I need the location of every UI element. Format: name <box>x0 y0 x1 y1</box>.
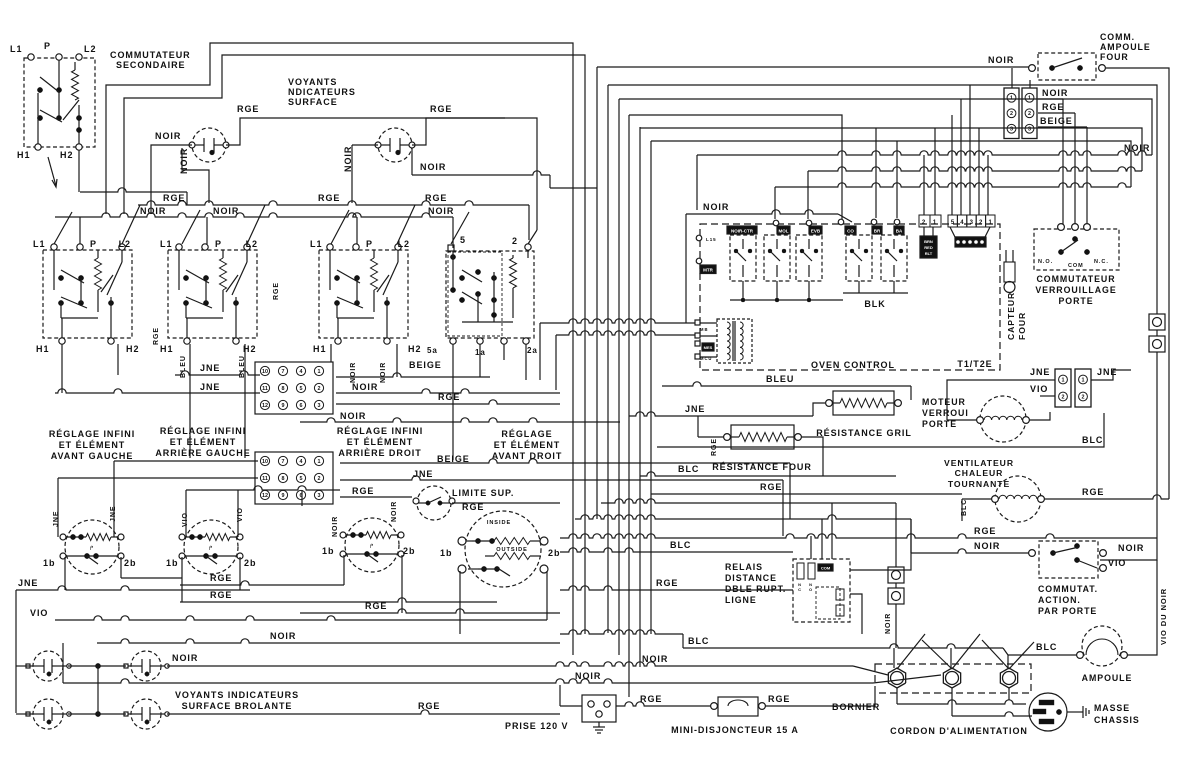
wire oven feed g <box>969 85 971 215</box>
terminal block BORNIER box <box>875 664 1031 693</box>
label relais distance <box>725 562 786 605</box>
svg-text:NOIR: NOIR <box>885 613 892 634</box>
svg-text:BLK: BLK <box>864 299 885 309</box>
wire noir bus 643 <box>97 639 560 643</box>
wire bundle v5 <box>639 127 641 667</box>
label JNE cn1 b <box>200 382 220 392</box>
svg-text:L1: L1 <box>310 239 322 249</box>
svg-text:P: P <box>215 239 222 249</box>
wire cn2 beige <box>340 459 790 519</box>
svg-text:9: 9 <box>282 403 285 409</box>
label VIO cn4 <box>1030 384 1048 394</box>
svg-text:DISTANCE: DISTANCE <box>725 573 777 583</box>
label RGE cn2 <box>352 486 374 496</box>
svg-text:BEIGE: BEIGE <box>409 360 442 370</box>
svg-text:RGE: RGE <box>760 482 782 492</box>
label NOIR v1 <box>332 516 339 537</box>
infinite switch dial FL <box>60 520 124 574</box>
svg-text:ARRIÈRE DROIT: ARRIÈRE DROIT <box>338 448 421 458</box>
wire bundle h335 <box>556 331 697 335</box>
svg-text:RGE: RGE <box>768 694 790 704</box>
surface hot lamp B <box>124 651 169 681</box>
label RGE lamp2 <box>430 104 452 114</box>
wire rge d2b <box>180 598 497 602</box>
relay distance box <box>793 559 850 622</box>
svg-text:VERROUI: VERROUI <box>922 408 969 418</box>
fan chaleur tournante <box>992 476 1045 522</box>
transformer terminals <box>695 320 714 361</box>
label BLC 648 <box>688 636 709 646</box>
connector CN3b <box>1022 88 1037 139</box>
svg-text:2b: 2b <box>124 558 136 568</box>
label NOIR oven <box>703 202 729 212</box>
wire ampoule right <box>1127 560 1157 655</box>
svg-text:1b: 1b <box>166 558 178 568</box>
label BEIGE <box>409 360 442 370</box>
wire rge d2 <box>180 581 344 585</box>
surface hot lamp D <box>124 699 169 729</box>
label NOIR cn1 r <box>352 382 378 392</box>
label BLC 476 <box>678 464 699 474</box>
wire bleu <box>662 382 911 400</box>
label BLC 447 <box>1082 435 1103 445</box>
svg-text:H1: H1 <box>36 344 49 354</box>
circuit breaker 15A <box>711 697 766 716</box>
svg-text:3: 3 <box>970 220 974 226</box>
label RGE limite <box>462 502 484 512</box>
wire bus y171 <box>808 167 1142 219</box>
svg-text:2: 2 <box>979 220 983 226</box>
svg-text:JNE: JNE <box>1030 367 1050 377</box>
svg-text:NOIR: NOIR <box>575 671 601 681</box>
svg-text:1: 1 <box>1028 96 1031 102</box>
svg-text:RGE: RGE <box>318 193 340 203</box>
svg-text:CORDON D'ALIMENTATION: CORDON D'ALIMENTATION <box>890 726 1028 736</box>
svg-text:2a: 2a <box>527 346 538 355</box>
label COMM AMPOULE FOUR <box>1100 32 1151 62</box>
relay K5 <box>881 235 907 281</box>
svg-text:RÉSISTANCE FOUR: RÉSISTANCE FOUR <box>712 462 812 472</box>
labels dial FL <box>43 506 136 568</box>
fuse holder sq2 <box>1149 336 1165 352</box>
ground MASSE CHASSIS <box>1067 706 1089 718</box>
wire relais feeds <box>811 503 911 634</box>
wire vent left <box>962 499 992 521</box>
wire cn2 jne <box>340 476 783 536</box>
svg-text:RGE: RGE <box>1082 487 1104 497</box>
svg-text:5: 5 <box>460 235 466 245</box>
svg-text:BLC: BLC <box>1036 642 1057 652</box>
label NOIR lamp2 <box>420 162 446 172</box>
svg-text:JNE: JNE <box>200 382 220 392</box>
svg-text:JNE: JNE <box>18 578 38 588</box>
svg-text:NOIR: NOIR <box>1124 143 1150 153</box>
svg-text:RÉSISTANCE GRIL: RÉSISTANCE GRIL <box>816 428 912 438</box>
label BLEU SW2-H1 vertical <box>180 355 187 378</box>
label NOIR app <box>1118 543 1144 553</box>
svg-text:SURFACE BROLANTE: SURFACE BROLANTE <box>182 701 293 711</box>
surface hot lamp C <box>26 699 71 729</box>
svg-text:H2: H2 <box>408 344 421 354</box>
label RGE d2b <box>210 590 232 600</box>
svg-text:COMM.: COMM. <box>1100 32 1135 42</box>
svg-text:2: 2 <box>1062 394 1065 400</box>
wire P feeds <box>80 217 357 244</box>
svg-text:JNE: JNE <box>1097 367 1117 377</box>
selector switch SW4 box <box>446 244 534 338</box>
label NOIR 666 <box>642 654 668 664</box>
svg-text:6: 6 <box>300 403 303 409</box>
indicator lamp DS2 <box>375 128 415 162</box>
svg-text:FOUR: FOUR <box>1017 312 1027 340</box>
wire comm ampoule right <box>1106 68 1169 499</box>
svg-text:RGE: RGE <box>237 104 259 114</box>
label action par porte <box>1038 584 1098 616</box>
relay tag K1 <box>727 226 757 234</box>
svg-text:5: 5 <box>300 386 303 392</box>
label JNE cn4 l <box>1030 367 1050 377</box>
svg-text:BLC: BLC <box>678 464 699 474</box>
label L1 <box>10 44 22 54</box>
svg-text:VENTILATEUR: VENTILATEUR <box>944 458 1014 468</box>
wire oven internal low <box>730 281 908 302</box>
svg-text:NOIR: NOIR <box>974 541 1000 551</box>
svg-text:LIMITE SUP.: LIMITE SUP. <box>452 488 514 498</box>
wire rge four <box>698 416 724 437</box>
surface switch SW1 box <box>43 244 132 344</box>
svg-text:5a: 5a <box>427 346 438 355</box>
label JNE cn4 r <box>1097 367 1117 377</box>
wire top run 1 <box>106 43 573 655</box>
wire bundle v1 <box>596 67 598 519</box>
label BLC 552 <box>670 540 691 550</box>
power plug CORDON <box>1029 693 1067 731</box>
wire cn1 right noir <box>336 373 560 393</box>
svg-text:VOYANTS: VOYANTS <box>288 77 337 87</box>
svg-text:L15: L15 <box>706 237 717 242</box>
svg-text:CAPTEUR: CAPTEUR <box>1006 292 1016 340</box>
svg-text:VIO: VIO <box>30 608 48 618</box>
connector P11 <box>919 215 941 227</box>
svg-text:RGE: RGE <box>425 193 447 203</box>
wire prise feed <box>560 685 582 706</box>
svg-text:NOIR: NOIR <box>703 202 729 212</box>
svg-text:NOIR: NOIR <box>1042 88 1068 98</box>
svg-text:NOIR: NOIR <box>642 654 668 664</box>
label LIMITE SUP <box>452 488 514 498</box>
motor verrou porte <box>977 396 1030 442</box>
svg-text:7: 7 <box>282 459 285 465</box>
svg-text:2: 2 <box>318 386 321 392</box>
label NOIR lamps <box>172 653 198 663</box>
svg-text:MB: MB <box>700 327 708 332</box>
labels SW2 <box>160 239 258 354</box>
label RGE cn1 <box>438 392 460 402</box>
svg-text:RGE: RGE <box>656 578 678 588</box>
wire left col 683 <box>62 643 64 683</box>
svg-text:4: 4 <box>960 220 964 226</box>
label JNE gril <box>685 404 705 414</box>
svg-text:ACTION.: ACTION. <box>1038 595 1081 605</box>
arrow <box>48 157 57 187</box>
label REGLAGE INFINI ARRIERE GAUCHE <box>155 426 250 458</box>
svg-text:VERROUILLAGE: VERROUILLAGE <box>1035 285 1116 295</box>
label RGE fuse r <box>768 694 790 704</box>
wire oven feed d <box>934 128 936 215</box>
svg-text:NOIR: NOIR <box>172 653 198 663</box>
wire cn4 leads <box>1040 370 1131 396</box>
svg-text:NDICATEURS: NDICATEURS <box>288 87 356 97</box>
wire lamp1 noir down <box>182 148 209 203</box>
bornier terminal 1 <box>888 668 905 688</box>
svg-text:1b: 1b <box>43 558 55 568</box>
svg-text:RGE: RGE <box>365 601 387 611</box>
wire sq column <box>895 583 897 648</box>
label REGLAGE AVANT DROIT <box>492 429 563 461</box>
wire rge 538 <box>560 534 1157 538</box>
svg-text:RELAIS: RELAIS <box>725 562 763 572</box>
wire h634 <box>560 630 683 648</box>
relay tag K4 <box>845 226 856 234</box>
label RGE lamps <box>418 701 440 711</box>
switch verrouillage box <box>1034 224 1119 270</box>
wire lamp1 left <box>151 145 192 214</box>
relay K3 <box>796 235 822 281</box>
svg-text:↱: ↱ <box>369 543 374 550</box>
wire app left <box>911 519 1029 553</box>
wire oven feed a <box>875 128 877 218</box>
wire stair h115 <box>629 115 842 219</box>
label NOIR bus2 <box>213 206 239 216</box>
labels dial RL <box>166 507 256 568</box>
label JNE cn2 <box>413 469 433 479</box>
labels dial RR <box>322 546 415 556</box>
svg-text:BEIGE: BEIGE <box>1040 116 1073 126</box>
wire cn2 left feeds <box>58 461 340 506</box>
wire oven feed i <box>987 155 989 215</box>
wire rge d3 <box>300 609 560 613</box>
label NOIR bus3 <box>428 206 454 216</box>
label NOIR lamp1 vertical <box>179 148 189 174</box>
label verrouillage <box>1035 274 1116 306</box>
relay K4 <box>846 235 872 281</box>
svg-text:2b: 2b <box>244 558 256 568</box>
wire verrouillage feeds <box>1063 99 1087 224</box>
svg-text:1b: 1b <box>322 546 334 556</box>
wire oven noir <box>686 210 852 323</box>
svg-text:L2: L2 <box>84 44 96 54</box>
surface hot lamp A <box>26 651 71 681</box>
wire box4 tail <box>540 323 556 390</box>
svg-text:10: 10 <box>262 369 268 375</box>
svg-text:1: 1 <box>318 369 321 375</box>
label RGE d2 <box>210 573 232 583</box>
wire bundle h323 <box>540 319 697 323</box>
wire h503 <box>601 499 896 567</box>
label RGE fuse l <box>640 694 662 704</box>
svg-text:NOIR: NOIR <box>428 206 454 216</box>
label RGE cn3 <box>1042 102 1064 112</box>
svg-text:H1: H1 <box>313 344 326 354</box>
label NOIR lamp2 vertical <box>343 146 353 172</box>
wire bundle v4 <box>628 115 630 697</box>
svg-text:JNE: JNE <box>685 404 705 414</box>
label RESISTANCE GRIL <box>816 428 912 438</box>
svg-text:RÉGLAGE: RÉGLAGE <box>501 429 552 439</box>
svg-text:1: 1 <box>988 220 992 226</box>
wire lamp rows <box>68 666 126 714</box>
svg-text:NOIR-CTR: NOIR-CTR <box>731 229 754 234</box>
svg-text:RÉGLAGE INFINI: RÉGLAGE INFINI <box>160 426 246 436</box>
wire noir 683 <box>63 675 941 683</box>
svg-text:CHALEUR: CHALEUR <box>955 468 1004 478</box>
svg-text:AMPOULE: AMPOULE <box>1082 673 1133 683</box>
label RGE d3 <box>365 601 387 611</box>
wire bundle v6 <box>650 141 652 634</box>
indicator lamp DS1 <box>189 128 229 162</box>
wire rge 494 <box>651 493 962 495</box>
svg-text:COM: COM <box>1068 263 1084 269</box>
svg-text:NOIR: NOIR <box>140 206 166 216</box>
wire bundle v3 <box>618 99 620 655</box>
wire oven feed c <box>923 155 925 215</box>
label REGLAGE INFINI AVANT GAUCHE <box>49 429 135 461</box>
svg-text:4: 4 <box>300 369 303 375</box>
label T1/T2E <box>957 359 992 369</box>
wire stair h141 <box>651 141 1131 187</box>
wire noir 666 <box>167 662 888 675</box>
wire blc 476 <box>640 472 896 476</box>
label RGE bus3 <box>425 193 447 203</box>
svg-text:11: 11 <box>262 476 268 482</box>
label RGE 494 <box>760 482 782 492</box>
wire vent right <box>1044 495 1169 499</box>
label RGE lamp1 <box>237 104 259 114</box>
commutateur secondaire S1 box <box>24 58 95 147</box>
svg-text:2: 2 <box>512 236 518 246</box>
wire right edge column <box>1100 330 1157 560</box>
svg-text:H1: H1 <box>17 150 30 160</box>
svg-text:8: 8 <box>282 386 285 392</box>
wire fuse right <box>765 693 875 706</box>
svg-text:MINI-DISJONCTEUR 15 A: MINI-DISJONCTEUR 15 A <box>671 725 799 735</box>
surface switch SW3 box <box>319 244 408 344</box>
svg-text:DBLE RUPT.: DBLE RUPT. <box>725 584 786 594</box>
wire stair h99 <box>619 99 1152 155</box>
svg-text:L1: L1 <box>33 239 45 249</box>
wire blc 447 <box>657 413 1104 447</box>
svg-text:ET ÉLÉMENT: ET ÉLÉMENT <box>59 440 126 450</box>
wire moteur left <box>947 380 1040 420</box>
svg-text:RLT: RLT <box>925 251 933 256</box>
label moteur verrou <box>922 397 969 429</box>
label VIO DU NOIR <box>1159 588 1168 645</box>
svg-text:BRN: BRN <box>924 239 933 244</box>
blob P5 plug <box>950 227 990 247</box>
fuse holder sq1 <box>1149 314 1165 330</box>
svg-text:L1: L1 <box>160 239 172 249</box>
wire top run 2 <box>124 55 585 634</box>
svg-text:N.C.: N.C. <box>1094 259 1109 265</box>
wire stair h128 <box>640 128 1142 171</box>
svg-text:COM: COM <box>821 566 831 571</box>
svg-text:AVANT DROIT: AVANT DROIT <box>492 451 563 461</box>
labels SW3 <box>310 239 421 354</box>
heater RESISTANCE GRIL <box>826 391 902 415</box>
svg-text:BLC: BLC <box>670 540 691 550</box>
svg-text:↱: ↱ <box>89 545 94 552</box>
svg-text:MOL: MOL <box>779 229 789 234</box>
label NOIR 643 <box>270 631 296 641</box>
label RGE vent <box>1082 487 1104 497</box>
svg-text:INSIDE: INSIDE <box>487 520 511 526</box>
svg-text:10: 10 <box>262 459 268 465</box>
svg-text:RGE: RGE <box>352 486 374 496</box>
wire lamp2 left <box>352 145 378 203</box>
svg-text:MASSE: MASSE <box>1094 703 1130 713</box>
relay tag K6 <box>894 226 904 234</box>
svg-text:NOIR: NOIR <box>270 631 296 641</box>
wire moteur right <box>1029 412 1050 420</box>
svg-text:NOIR: NOIR <box>332 516 339 537</box>
svg-text:ARRIÈRE GAUCHE: ARRIÈRE GAUCHE <box>155 448 250 458</box>
svg-text:O: O <box>809 587 813 592</box>
heater RESISTANCE FOUR <box>724 425 802 449</box>
svg-text:3: 3 <box>318 493 321 499</box>
label RGE 590 <box>656 578 678 588</box>
svg-text:L2: L2 <box>398 239 410 249</box>
wire blc 648 <box>683 644 1077 655</box>
svg-text:H1: H1 <box>160 344 173 354</box>
selector bottom terminals <box>450 338 529 344</box>
svg-text:T1/T2E: T1/T2E <box>957 359 992 369</box>
wire lamp left column <box>16 666 30 714</box>
svg-text:RGE: RGE <box>153 327 160 345</box>
label JNE bus <box>18 578 38 588</box>
label NOIR sq v <box>885 613 892 634</box>
wire oven feed f <box>960 99 962 215</box>
label COMMUTATEUR SECONDAIRE <box>110 50 191 70</box>
wire JNE cn1 b <box>55 389 260 393</box>
svg-text:5: 5 <box>300 476 303 482</box>
wire rge 590 <box>560 586 793 590</box>
connector CN3a <box>1004 88 1019 139</box>
svg-text:COMMUTAT.: COMMUTAT. <box>1038 584 1098 594</box>
bornier terminal 3 <box>1000 668 1017 688</box>
svg-text:NOIR: NOIR <box>155 131 181 141</box>
svg-text:1: 1 <box>318 459 321 465</box>
svg-text:2: 2 <box>922 220 926 226</box>
svg-text:12: 12 <box>262 403 268 409</box>
svg-text:RGE: RGE <box>1042 102 1064 112</box>
svg-text:COMMUTATEUR: COMMUTATEUR <box>110 50 191 60</box>
wire four right <box>801 437 823 476</box>
wire switch arms <box>54 205 537 244</box>
label L2 <box>84 44 96 54</box>
oven left terminals <box>696 235 716 273</box>
svg-text:RÉGLAGE INFINI: RÉGLAGE INFINI <box>337 426 423 436</box>
svg-text:11: 11 <box>262 386 268 392</box>
svg-text:ET ÉLÉMENT: ET ÉLÉMENT <box>494 440 561 450</box>
label H2 <box>60 150 73 160</box>
label VOYANTS INDICATEURS SURFACE BROLANTE <box>175 690 299 711</box>
svg-text:NOIR: NOIR <box>380 362 387 383</box>
svg-text:2: 2 <box>318 476 321 482</box>
wire oven feed h <box>978 128 980 215</box>
svg-text:NOIR: NOIR <box>350 362 357 383</box>
connector CN4a <box>1055 369 1071 407</box>
wire cn3 labels <box>1038 99 1087 127</box>
